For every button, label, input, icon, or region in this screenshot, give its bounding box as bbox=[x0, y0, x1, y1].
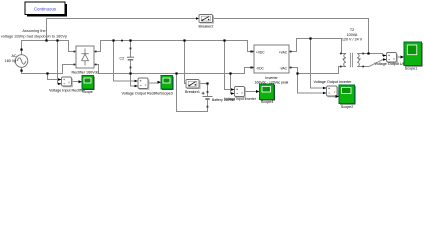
scope: Scope2 bbox=[336, 85, 356, 105]
svg-text:Scope2: Scope2 bbox=[341, 105, 354, 109]
wire: DC plus rail from rectifier to inverter bbox=[94, 41, 254, 52]
svg-text:+VDC: +VDC bbox=[256, 50, 265, 54]
wire: transformer secondary bottom diagonal to Voltage Output UPS minus bbox=[364, 60, 387, 67]
svg-text:Scope1: Scope1 bbox=[405, 67, 418, 71]
wire: Breaker1 output to battery top bbox=[199, 84, 208, 93]
wire: tap minus rail to Voltage Output Rectifier bbox=[131, 74, 138, 87]
transformer T2 bbox=[341, 53, 364, 67]
wire: tap -VAC to Voltage Output Inverter minus bbox=[298, 74, 327, 94]
svg-text:-VDC: -VDC bbox=[256, 66, 264, 70]
svg-text:Voltage Input Inverter: Voltage Input Inverter bbox=[224, 97, 257, 101]
svg-text:160 Vp: 160 Vp bbox=[5, 59, 17, 63]
wire: Voltage Input Inverter output to Scope4 bbox=[245, 91, 257, 93]
wire: AC neutral to rectifier input B bbox=[22, 65, 77, 74]
wire: bypass from AC hot up and across to Breaker2 bbox=[47, 19, 198, 41]
wire: tap plus rail to Voltage Input Inverter bbox=[225, 41, 235, 90]
annotation: stepdown note bbox=[1, 29, 67, 39]
svg-text:Voltage Input Rectifier: Voltage Input Rectifier bbox=[49, 89, 86, 93]
voltage measurement: Voltage Input Rectifier bbox=[58, 77, 72, 87]
breaker Breaker2 bbox=[196, 15, 214, 24]
wire: tap from hot to Voltage Input Rectifier minus bbox=[58, 41, 62, 84]
wire: tap minus rail to Voltage Input Inverter bbox=[231, 74, 235, 94]
wire: bypass from Breaker2 to output junction bbox=[213, 19, 369, 54]
scope: Scope4 bbox=[256, 84, 275, 101]
wire: Voltage Output Inverter output to Scope2 bbox=[337, 91, 339, 97]
svg-text:Assuming the: Assuming the bbox=[22, 29, 45, 33]
wire: inverter -VAC to transformer primary bottom bbox=[289, 67, 341, 74]
svg-text:Rectifier 160Vdc: Rectifier 160Vdc bbox=[71, 70, 98, 74]
junction dots and port squares bbox=[20, 37, 369, 84]
svg-text:Scope3: Scope3 bbox=[160, 91, 173, 95]
battery 160Vdc bbox=[202, 92, 213, 101]
wire: tap to Voltage Input Rectifier plus bbox=[48, 74, 62, 80]
breaker Breaker1 bbox=[186, 80, 200, 89]
scope: Scope bbox=[79, 76, 95, 91]
wire: DC minus rail from rectifier to inverter bbox=[94, 65, 254, 74]
svg-text:Inverter: Inverter bbox=[265, 76, 278, 80]
svg-text:voltage 339Vp had stepdown to: voltage 339Vp had stepdown to 160Vp bbox=[1, 35, 67, 39]
AC voltage source 160Vp bbox=[15, 55, 28, 68]
powergui Continuous block bbox=[25, 2, 67, 17]
wire: Voltage Input Rectifier output to Scope bbox=[72, 81, 80, 83]
svg-text:2: 2 bbox=[359, 57, 361, 61]
svg-text:C2: C2 bbox=[120, 56, 125, 60]
wire: tap plus rail to Voltage Output Rectifier bbox=[114, 41, 138, 82]
wire: AC hot to rectifier input A bbox=[22, 41, 77, 55]
svg-text:Scope: Scope bbox=[82, 90, 92, 94]
svg-text:Voltage Output Inverter: Voltage Output Inverter bbox=[314, 80, 353, 84]
wire: transformer secondary top to Voltage Output UPS plus bbox=[364, 54, 387, 56]
inverter block bbox=[251, 45, 290, 73]
svg-text:-VAC: -VAC bbox=[280, 66, 288, 70]
svg-text:+VAC: +VAC bbox=[279, 50, 288, 54]
svg-text:100VA: 100VA bbox=[347, 33, 358, 37]
svg-text:120 V / 24 V: 120 V / 24 V bbox=[342, 37, 363, 41]
scope: Scope3 bbox=[158, 76, 174, 91]
wire: battery bottom loop to minus rail bbox=[177, 74, 208, 112]
svg-text:T2: T2 bbox=[350, 28, 354, 32]
rectifier block bbox=[76, 46, 94, 68]
svg-text:Breaker1: Breaker1 bbox=[185, 90, 200, 94]
capacitor C2 bbox=[127, 41, 134, 74]
port squares on component stubs bbox=[73, 48, 364, 108]
svg-text:AC: AC bbox=[11, 54, 16, 58]
wire: Voltage Output Rectifier output to Scope3 bbox=[148, 82, 158, 84]
scope: Scope1 bbox=[401, 42, 423, 67]
wire: Voltage Output UPS output to Scope1 bbox=[396, 56, 401, 58]
svg-text:Voltage Output Rectifier: Voltage Output Rectifier bbox=[122, 91, 162, 95]
voltage measurement: Voltage Output Rectifier bbox=[135, 78, 149, 89]
svg-text:Scope4: Scope4 bbox=[261, 100, 274, 104]
svg-text:160Vdc - 120Vac peak: 160Vdc - 120Vac peak bbox=[255, 80, 289, 84]
svg-text:Breaker2: Breaker2 bbox=[199, 24, 214, 28]
wire: plus rail down to Breaker1 input bbox=[185, 41, 187, 84]
svg-text:Continuous: Continuous bbox=[34, 7, 57, 12]
voltage measurement: Voltage Output UPS bbox=[383, 53, 397, 63]
svg-text:Voltage Output UPS: Voltage Output UPS bbox=[374, 62, 408, 66]
voltage measurement: Voltage Input Inverter bbox=[231, 87, 245, 98]
wire: inverter +VAC to transformer primary top bbox=[289, 39, 342, 54]
wire: tap +VAC to Voltage Output Inverter plus bbox=[311, 39, 327, 89]
voltage measurement: Voltage Output Inverter bbox=[323, 86, 338, 97]
